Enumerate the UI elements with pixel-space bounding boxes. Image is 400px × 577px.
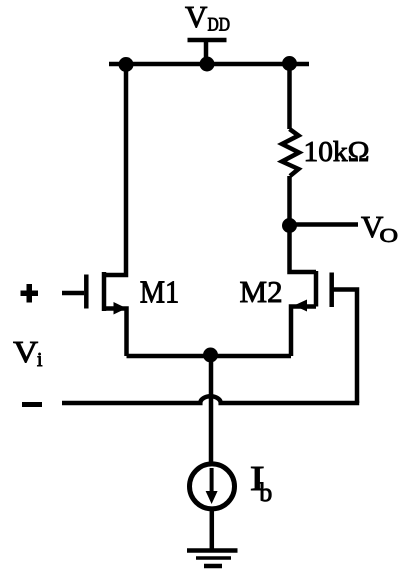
svg-text:DD: DD	[208, 15, 231, 36]
svg-text:M1: M1	[140, 274, 180, 310]
svg-text:b: b	[259, 478, 272, 507]
svg-text:V: V	[13, 334, 39, 369]
svg-text:M2: M2	[240, 274, 283, 309]
svg-text:10kΩ: 10kΩ	[304, 136, 370, 168]
svg-text:O: O	[380, 226, 399, 247]
svg-text:V: V	[185, 0, 208, 34]
svg-text:i: i	[37, 350, 43, 371]
